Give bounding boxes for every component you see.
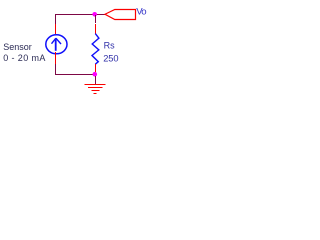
wire: left vertical lower segment [55, 64, 56, 75]
svg-text:Sensor: Sensor [3, 42, 32, 52]
resistor Rs bottom pin (red stub) [95, 64, 96, 72]
svg-text:0 - 20 mA: 0 - 20 mA [3, 53, 46, 63]
svg-text:Rs: Rs [104, 41, 115, 51]
wire: ground stem [95, 76, 96, 84]
svg-text:250: 250 [103, 53, 118, 63]
current source IS bottom pin (red stub) [55, 52, 56, 64]
current source IS arrow (points up) [52, 38, 62, 51]
resistor Rs zigzag body [92, 34, 99, 65]
resistor Rs top pin (red stub) [95, 24, 96, 34]
current source IS circle body [46, 35, 67, 54]
current source IS top pin (red stub) [55, 24, 56, 34]
node junction dot bottom (ground node) [93, 72, 98, 77]
svg-text:Vo: Vo [136, 6, 146, 17]
wire: bottom horizontal [55, 74, 93, 75]
ground symbol [85, 84, 106, 94]
wire: right vertical upper stub below top junction [95, 15, 96, 23]
node junction dot top (net Vo) [92, 12, 97, 17]
output pin flag Vo (red pennant) [105, 10, 136, 20]
wire: top horizontal from left column to Vo tag [55, 14, 105, 15]
wire: left vertical upper segment [55, 14, 56, 24]
